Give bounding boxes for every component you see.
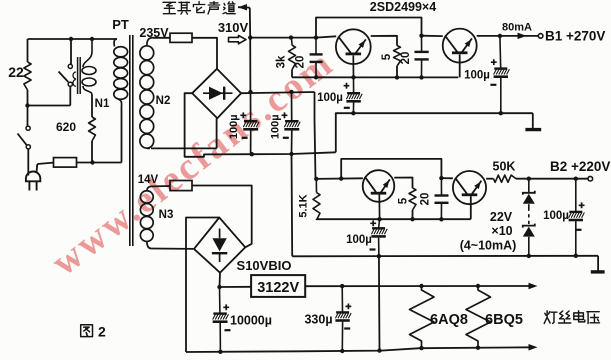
wire Q2 emitter to B1 [477, 35, 539, 37]
resistor 3k [291, 38, 292, 46]
resistor 5 R5b [409, 188, 416, 210]
junction cap20a bottom [314, 75, 318, 79]
junction DC+ cap2 [289, 90, 293, 94]
wire 310V to Q1 [316, 36, 336, 37]
wire bridge2 DC+ down [219, 273, 222, 287]
junction gnd cap2 [289, 152, 293, 156]
junction gnd cap1 [250, 152, 254, 156]
resistor 620 [91, 95, 93, 117]
svg-text:×10: ×10 [491, 224, 512, 238]
svg-text:80mA: 80mA [502, 22, 532, 34]
stage2 feed wire [316, 177, 363, 180]
svg-text:5: 5 [381, 53, 393, 60]
wire DC+ down to stage2 feed [315, 92, 316, 179]
wire bridge DC+ rail [241, 92, 314, 93]
transformer core [129, 35, 131, 246]
relay contact switch S1 [70, 39, 72, 64]
junction C11 bottom [340, 349, 344, 353]
wire parallel bottom [28, 105, 71, 107]
svg-text:330µ: 330µ [304, 313, 332, 327]
junction R5a bottom [395, 75, 399, 79]
capacitor 20 C4 [421, 36, 423, 52]
fuse F1 [54, 158, 77, 168]
junction C10 bottom [218, 350, 222, 354]
junction 6AQ8 top [419, 284, 423, 288]
bridge rectifier D2 (S10VBIO) [194, 218, 245, 273]
wire 235V [153, 37, 170, 39]
wire Q4 emitter to 50K [486, 178, 493, 180]
mains switch S2 [27, 106, 29, 127]
svg-text:6BQ5: 6BQ5 [485, 312, 523, 328]
junction 6BQ5 top [476, 284, 480, 288]
bottom ground rail [186, 347, 531, 352]
svg-text:310V: 310V [218, 20, 249, 35]
junction feed jumper2 [339, 176, 343, 180]
svg-text:100µ: 100µ [464, 70, 490, 82]
wire N2 to bridge AC2 [151, 147, 217, 149]
wire to Q2 [422, 35, 443, 37]
svg-text:20: 20 [420, 193, 432, 206]
wire fuse2 to bridge [192, 38, 217, 69]
junction parallel bottom [25, 103, 29, 107]
capacitor 330u C11 [341, 286, 343, 312]
junction C9 top [574, 177, 578, 181]
arrow filament top [529, 283, 538, 290]
junction gnd C6 [499, 111, 503, 115]
stage1 ground rail [336, 113, 533, 152]
svg-text:2: 2 [98, 324, 106, 340]
wire to Q4 [441, 177, 453, 179]
wire Q2 base down [459, 54, 461, 77]
junction stage2gnd bottom [377, 348, 381, 352]
junction 330u top [340, 284, 344, 288]
resistor 5.1K [315, 179, 317, 193]
ground symbol stage1 [532, 113, 534, 128]
svg-text:50K: 50K [493, 160, 516, 174]
wire Q4 base [470, 196, 472, 219]
svg-text:14V: 14V [138, 174, 159, 186]
junction 6BQ5 bottom [476, 346, 480, 350]
capacitor 100u C6 (B1 output) [499, 36, 502, 69]
junction 620-fuse [90, 160, 94, 164]
junction gnd C5 [351, 111, 355, 115]
label figure 2 (CJK) [81, 324, 106, 340]
transistor Q3 [363, 170, 395, 202]
resistor 5 R5a [394, 46, 401, 67]
svg-text:5.1K: 5.1K [298, 194, 310, 217]
junction gnd C9 [574, 254, 578, 258]
wire bridge2 DC- to bottom rail [186, 218, 219, 353]
terminal B2 [588, 176, 593, 181]
filament 6AQ8 [410, 286, 435, 348]
wire fuse3 to bridge2 right vertex [192, 186, 252, 248]
svg-text:B1 +270V: B1 +270V [545, 29, 605, 44]
relay coil winding [83, 39, 92, 67]
junction 6AQ8 bottom [419, 346, 423, 350]
transistor Q2 [443, 29, 477, 63]
resistor 22 (inrush) [27, 39, 29, 62]
node 310V junction [248, 35, 252, 39]
svg-text:20: 20 [295, 56, 307, 69]
wire stage2 gnd to bottom rail [378, 256, 381, 351]
wire bridge DC- to ground rail [185, 93, 336, 157]
svg-text:620: 620 [56, 120, 76, 134]
wire mains top [28, 38, 118, 40]
capacitor 100u C9 (B2 output) [575, 179, 577, 212]
svg-text:100µ: 100µ [346, 234, 372, 246]
wire to 3122V [220, 286, 252, 288]
wire 50K to B2 [516, 178, 588, 180]
ground symbol stage2 [597, 256, 599, 271]
capacitor 100u C2 [291, 92, 293, 121]
junction top-coil [90, 37, 94, 41]
svg-text:100µ: 100µ [269, 114, 281, 139]
wire fuse to N1 [77, 162, 122, 164]
junction node Q2C [419, 34, 423, 38]
svg-text:3122V: 3122V [257, 280, 299, 296]
collector jumper stage1 [316, 18, 422, 38]
arrow to other channels [238, 4, 247, 11]
svg-text:B2 +220V: B2 +220V [550, 159, 610, 174]
junction Q1 base [351, 75, 355, 79]
wire to other channels + 310V node vertical [249, 8, 252, 93]
junction R5b rail2 [410, 217, 414, 221]
svg-text:5: 5 [398, 197, 410, 204]
svg-text:PT: PT [112, 17, 129, 32]
junction zener top [527, 177, 531, 181]
winding N3 [147, 186, 153, 190]
bridge rectifier D1 [192, 69, 241, 119]
junction bridge2 out [217, 285, 221, 289]
capacitor 100u C1 (on x250) [250, 92, 252, 121]
junction jumper1 [314, 35, 318, 39]
junction 3k [289, 35, 293, 39]
junction feed 5.1K [314, 177, 318, 181]
wire 310V rail [250, 37, 316, 39]
AC plug [26, 172, 40, 182]
capacitor 100u C8 (Q3 base filter) [379, 219, 380, 228]
relay coil core [77, 57, 79, 94]
junction C7 rail2 [439, 217, 443, 221]
junction Q3 base rail2 [377, 217, 381, 221]
wire Q1 emitter to R5a [371, 36, 397, 46]
stage2 ground rail [292, 255, 598, 257]
junction top-switch [69, 37, 73, 41]
collector jumper stage2 [341, 159, 441, 179]
junction cap20b bottom [419, 75, 423, 79]
svg-text:100µ: 100µ [228, 114, 240, 139]
svg-text:22: 22 [8, 64, 24, 80]
base rail stage1 [292, 76, 458, 78]
base rail stage2 [317, 218, 471, 220]
svg-text:6AQ8: 6AQ8 [430, 312, 468, 328]
wire gnd rail drop stage2 [291, 154, 294, 256]
junction zener bottom [527, 254, 531, 258]
terminal B1 [538, 34, 543, 39]
arrow 80mA [518, 33, 527, 40]
resistor 50K [494, 175, 517, 182]
svg-text:100µ: 100µ [543, 210, 569, 222]
transistor Q4 [453, 171, 486, 204]
wire Q3 emitter to R5b [394, 178, 412, 189]
fuse F3 [153, 185, 171, 187]
svg-text:N1: N1 [95, 98, 110, 110]
transistor Q1 [336, 29, 371, 64]
svg-text:N3: N3 [159, 209, 174, 221]
capacitor 20 C3 [315, 38, 317, 54]
label to-other-channels (CJK) [163, 2, 235, 15]
capacitor 10000u C10 [219, 287, 221, 314]
junction C6 top [498, 34, 502, 38]
junction gnd C8 [377, 254, 381, 258]
junction DC+ x250 [248, 90, 252, 94]
svg-text:100µ: 100µ [317, 92, 343, 104]
fuse F2 [170, 33, 192, 42]
filament rail top [305, 285, 530, 287]
svg-text:(4~10mA): (4~10mA) [460, 239, 517, 253]
wire N3 to bridge2 AC (left vertex) [151, 248, 193, 250]
svg-text:N2: N2 [156, 95, 171, 107]
310V hollow arrow [229, 35, 247, 43]
winding N2 [147, 38, 153, 46]
svg-text:3k: 3k [275, 55, 287, 68]
arrow filament bottom [529, 344, 538, 351]
svg-text:10000µ: 10000µ [230, 314, 272, 328]
junction node Q4C [439, 176, 443, 180]
svg-text:22V: 22V [490, 210, 513, 224]
label filament-voltage (CJK) [544, 311, 599, 324]
filament 6BQ5 [466, 286, 491, 348]
svg-text:20: 20 [400, 52, 412, 65]
wire Q1 base down [352, 56, 354, 78]
winding N1 [114, 39, 117, 47]
svg-text:2SD2499×4: 2SD2499×4 [370, 0, 436, 14]
capacitor 20 C7 [440, 178, 442, 195]
wire plug to fuse [36, 164, 39, 172]
zener string 22V x10 [528, 179, 530, 193]
capacitor 100u C5 (Q1 base filter) [353, 77, 355, 93]
svg-text:S10VBIO: S10VBIO [237, 258, 292, 273]
regulator module 3122V [251, 275, 305, 297]
wire Q3 base down [378, 194, 380, 219]
